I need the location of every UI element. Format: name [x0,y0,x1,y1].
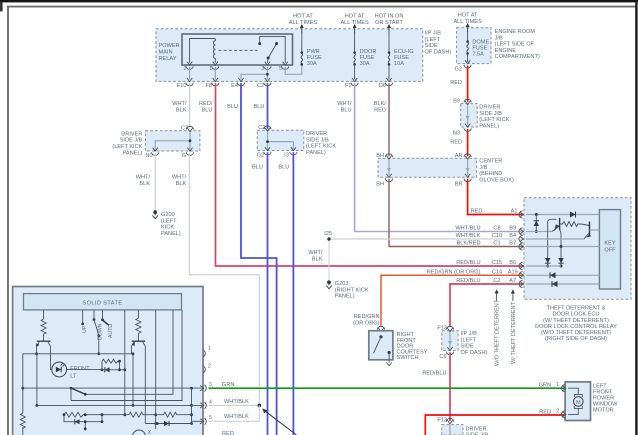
motor pin 1 [562,385,566,392]
svg-text:RELAY: RELAY [159,56,177,62]
svg-text:BR: BR [455,182,463,188]
svg-text:(LEFT: (LEFT [425,37,441,43]
svg-text:BLU: BLU [341,107,352,113]
feed wire h [155,310,157,429]
pin 2 [204,366,206,373]
svg-text:G203: G203 [335,281,349,287]
w/ theft deterrent arrow [512,292,514,302]
I/P JB F13 label [461,331,488,356]
svg-text:(LEFT: (LEFT [161,218,177,224]
svg-text:D6: D6 [379,83,386,89]
svg-text:PANEL): PANEL) [123,150,143,156]
wire RED to motor [425,415,565,435]
courtesy switch blade [379,335,382,338]
connector G pin [186,148,193,156]
ECU row B6 internal wire [526,265,561,267]
svg-text:M: M [576,400,581,406]
svg-text:HOT AT: HOT AT [458,13,478,19]
row D pin4 wire [37,404,203,406]
svg-text:WHT/BLU: WHT/BLU [455,226,480,232]
svg-text:(LEFT SIDE OF: (LEFT SIDE OF [495,42,535,48]
svg-text:PANEL): PANEL) [479,123,499,129]
PWR fuse [301,51,304,66]
P2 diode under resistor [64,415,102,422]
ECU connector B9 [519,228,523,235]
svg-text:DRIVER: DRIVER [121,131,142,137]
svg-text:ENGINE: ENGINE [495,48,517,54]
connector E10 [186,78,193,86]
svg-text:WHT/BLK: WHT/BLK [224,414,249,420]
pin5 inner wire [192,420,203,422]
transistor Q1 [559,218,561,231]
svg-text:RED/BLU: RED/BLU [422,371,446,377]
resistor row [64,412,87,417]
wire WHT/BLK from E10 [189,83,191,129]
svg-text:I/P J/B: I/P J/B [425,31,442,37]
ECU caption [535,305,617,342]
resistor R-left [20,413,25,429]
svg-text:F8: F8 [205,83,212,89]
internal wire split [268,132,294,151]
pin5 external wht/blk wire [209,405,260,421]
svg-text:SIDE: SIDE [425,43,438,49]
svg-text:BLK/: BLK/ [374,101,387,107]
diode left on A19 [550,272,556,278]
left rail down [22,354,24,435]
hot at all times label 2 [340,14,369,27]
ECU row B4 internal wire [526,238,584,240]
svg-text:(OR ORG): (OR ORG) [353,320,380,326]
svg-text:BLU: BLU [202,107,213,113]
connector F8 [212,78,219,86]
svg-text:GLOVE BOX): GLOVE BOX) [479,177,514,183]
relay coil [213,39,215,63]
wire RED/BLU down to driver JB [449,352,451,421]
svg-text:RED/BLU: RED/BLU [456,260,480,266]
relay dash-dot link [219,49,258,51]
connector G2 [464,60,471,68]
diode left on A7 [552,281,558,287]
diode row [145,423,191,425]
svg-text:(LEFT KICK: (LEFT KICK [112,144,142,150]
svg-text:FRONT: FRONT [70,366,90,372]
relay pin 2 [186,62,193,70]
svg-text:2: 2 [556,408,559,414]
gray frame left line [7,6,9,435]
I/P J/B label [425,31,452,56]
svg-text:N0: N0 [145,153,152,159]
svg-text:BLU: BLU [252,164,263,170]
ECU connector A1 [519,211,523,218]
svg-text:N3: N3 [453,131,460,137]
svg-text:1: 1 [209,66,212,72]
transistor Q-g [132,340,146,342]
ECU-IG fuse branch [388,29,390,52]
svg-text:30A: 30A [307,61,317,67]
ENGINE ROOM J/B box [457,28,491,64]
svg-text:C2: C2 [258,125,265,131]
Q-a emitter leg [36,346,38,354]
svg-text:BLK/RED: BLK/RED [457,241,481,247]
svg-text:(W/O THEFT DETERRENT): (W/O THEFT DETERRENT) [541,330,611,336]
wire BLU from G2 pin down [267,152,269,435]
bottom lamp [133,430,146,435]
svg-text:5: 5 [209,415,212,421]
svg-text:RED: RED [374,107,386,113]
svg-text:X: X [148,430,152,435]
svg-text:3: 3 [261,66,264,72]
hot in on or start label [375,14,404,27]
svg-text:W/O THEFT DETERRENT: W/O THEFT DETERRENT [495,299,501,366]
svg-text:THEFT DETERRENT &: THEFT DETERRENT & [547,305,606,311]
driver side JB label (left) [112,131,142,156]
ECU row A1 internal wire [526,214,599,216]
svg-text:C2: C2 [493,278,500,284]
feed wire a with resistor [43,310,45,341]
CENTER J/B box [378,158,477,177]
hot at all times label 3 [453,13,482,26]
svg-text:HOT IN ON: HOT IN ON [375,14,404,20]
connector D6 [385,78,392,86]
svg-text:DOWN: DOWN [98,323,104,340]
power main relay label [159,43,180,62]
gray frame top line [7,6,636,8]
svg-text:7.5A: 7.5A [472,52,484,58]
RED/GRN label at courtesy switch [353,314,380,326]
svg-text:BLU: BLU [254,104,265,110]
svg-text:ENGINE ROOM: ENGINE ROOM [495,29,536,35]
wire BLU from C2 [267,83,269,129]
svg-text:(LEFT: (LEFT [461,337,477,343]
svg-text:BLK: BLK [312,256,323,262]
svg-text:KEY: KEY [604,241,615,247]
row A pin3 wire [23,387,203,389]
svg-text:I3: I3 [284,153,289,159]
center JB label [479,159,514,184]
stub pin3 split to E4 and C2 [241,67,267,80]
svg-text:I25: I25 [324,231,332,237]
svg-text:J/B: J/B [495,35,503,41]
pin4 external wht/blk wire [209,404,260,406]
resistor R-g [136,318,141,334]
ECU connector B6 [519,262,523,269]
DRIVER SIDE J/B box (blue wires) [257,130,304,150]
svg-text:AR: AR [455,153,463,159]
svg-text:(BEHIND: (BEHIND [479,171,502,177]
wire WHT/BLK G pin long run to switch assembly [189,153,259,406]
relay blade to pin 3 [266,58,269,63]
svg-text:ALL TIMES: ALL TIMES [453,19,482,25]
courtesy switch lower contact [388,351,391,354]
wire GRN master switch to motor [209,387,566,389]
base resistor to Q2 [560,222,590,227]
courtesy switch label [397,332,428,361]
svg-text:G: G [182,153,186,159]
svg-text:C8: C8 [493,226,500,232]
svg-text:OF DASH): OF DASH) [461,350,488,356]
w/o theft deterrent arrow [496,292,498,302]
ECU connector B4 [519,235,523,242]
svg-text:LT: LT [70,374,77,380]
ECU row A7 internal wire [526,283,599,285]
svg-text:A19: A19 [508,269,518,275]
driver side JB label (blue) [306,131,336,156]
motor commutator brackets [574,395,582,409]
svg-text:BH: BH [376,182,384,188]
connector E4 [237,78,244,86]
relay switch blade [268,44,276,58]
internal wire split [155,132,190,151]
svg-text:WHT/: WHT/ [308,250,323,256]
motor internal wires [568,388,578,414]
motor label [593,384,618,414]
left front power window motor box [565,382,590,421]
relay fixed contact dot [258,42,261,45]
solid state box [24,294,182,310]
svg-text:A7: A7 [509,278,516,284]
relay fixed contact feed from pin 5 [260,36,286,62]
svg-text:1: 1 [556,382,559,388]
svg-text:MAIN: MAIN [159,50,173,56]
svg-text:BH: BH [376,153,384,159]
connector F13 driver JB [446,418,453,423]
relay pin 3 [264,62,271,70]
svg-text:F13: F13 [437,418,447,424]
svg-text:WHT/: WHT/ [136,175,151,181]
feed wire i to row B [85,310,173,394]
collector run down to B6 diode [548,219,557,258]
annotation arrow to junction [264,410,297,435]
svg-text:C10: C10 [492,233,502,239]
wire BLU from I3 pin down [292,152,294,435]
down switch [93,310,95,319]
wire RED to ECU A1 [468,179,524,215]
DRIVER SIDE J/B bottom box [442,425,463,435]
svg-text:A1: A1 [511,209,518,215]
hot at all times label 1 [289,14,318,27]
wire WHT/BLU from F1 to ECU C8 [355,83,524,231]
svg-text:WHT/: WHT/ [172,175,187,181]
connector I3 pin [290,147,297,155]
center JB internal wire (blk/red path) [388,160,390,176]
node I25 wht/blk net [329,238,524,240]
wire RED/BLU from F8 to ECU B6 [216,83,525,266]
svg-text:PANEL): PANEL) [335,294,355,300]
svg-text:I/P J/B: I/P J/B [461,331,478,337]
P1 resistor/diode pair [102,359,120,370]
svg-text:RED/GRN (OR ORG): RED/GRN (OR ORG) [427,269,481,275]
motor circle [574,397,584,407]
svg-text:DRIVER: DRIVER [479,105,500,111]
svg-text:C7: C7 [181,125,188,131]
svg-text:B9: B9 [453,99,460,105]
svg-text:OF DASH): OF DASH) [425,49,452,55]
DRIVER SIDE J/B box (left, wht/blk) [145,131,200,151]
center JB internal wire (red path) [467,160,469,176]
B7 vertical diode down [560,247,562,259]
svg-text:2: 2 [184,66,187,72]
PWR fuse wire to hot [301,29,303,52]
DRIVER SIDE J/B box (red feed) [461,104,478,127]
front lt lamp [52,362,67,377]
relay pin 1 [212,62,219,70]
svg-text:30A: 30A [360,61,370,67]
power main relay box [182,34,293,65]
wire WHT/BLK N0 to G200 [154,153,156,211]
relay coil feed wire [190,39,216,63]
svg-text:COMPARTMENT): COMPARTMENT) [495,54,540,60]
svg-text:BLK: BLK [139,181,150,187]
svg-text:RED: RED [450,80,462,86]
svg-text:2: 2 [208,364,211,370]
transistor Q-a [37,340,51,342]
long feed wire f [124,310,126,415]
Q1 emitter to B7 junction [560,229,561,247]
pin 5 [200,418,206,425]
svg-text:ALL TIMES: ALL TIMES [340,20,369,26]
svg-text:BLK: BLK [176,107,187,113]
stub pin2 to E10 [189,67,191,80]
svg-text:SWITCH: SWITCH [397,355,419,361]
svg-text:F1: F1 [345,83,352,89]
svg-text:SIDE J/B: SIDE J/B [479,111,502,117]
svg-text:W/ THEFT DETERRENT: W/ THEFT DETERRENT [511,301,517,364]
svg-text:KICK: KICK [161,225,174,231]
connector BH bottom [385,174,392,182]
svg-text:RED/BLU: RED/BLU [456,278,480,284]
ground G203 [326,280,332,288]
svg-text:C6: C6 [439,354,446,360]
wire RED/BLU lower net to ECU C2 [450,284,524,327]
connector BH top [385,154,392,159]
svg-text:C15: C15 [492,260,502,266]
feed wire g with resistor [137,310,139,341]
svg-text:B9: B9 [509,226,516,232]
svg-text:UP: UP [82,325,88,333]
svg-text:SOLID STATE: SOLID STATE [83,301,123,307]
svg-text:10A: 10A [394,61,404,67]
bus wire y353.8 [23,353,133,355]
throw contact wire [70,388,72,400]
svg-text:ALL TIMES: ALL TIMES [289,20,318,26]
courtesy switch connector [377,326,384,331]
relay pin 5 [282,62,289,70]
svg-text:E4: E4 [231,83,238,89]
svg-text:G200: G200 [161,212,175,218]
front lt to P1 network [67,369,102,371]
pin 4 [200,402,206,409]
svg-text:CENTER: CENTER [479,159,502,165]
ECU row B9 internal wire [526,231,552,233]
svg-text:DOOR LOCK CONTROL RELAY: DOOR LOCK CONTROL RELAY [535,324,617,330]
pin 3 [200,385,206,392]
svg-text:WHT/: WHT/ [172,101,187,107]
svg-text:OFF: OFF [604,248,616,254]
svg-text:C2: C2 [257,83,264,89]
svg-text:GRN: GRN [539,383,551,389]
Q-g left leg down [131,346,133,405]
svg-text:RED/: RED/ [199,101,213,107]
svg-text:3: 3 [209,382,212,388]
junction dot A1 [535,213,538,216]
resistor R-a [41,319,46,334]
svg-text:RED: RED [450,140,462,146]
wire RED dome to driver JB [467,66,469,102]
svg-text:BLK: BLK [176,181,187,187]
ECU row B7 internal wire [526,246,599,248]
wire RED to center JB [467,129,469,156]
svg-text:SIDE: SIDE [461,344,474,350]
svg-text:WHT/BLK: WHT/BLK [456,233,481,239]
svg-text:RED/GRN: RED/GRN [354,314,380,320]
connector C2 [264,78,271,86]
svg-text:MOTOR: MOTOR [593,407,614,413]
black right edge bar [635,2,637,435]
DOOR fuse branch [354,29,356,52]
svg-text:RED: RED [222,431,234,435]
stub pin1 to F8 [214,67,216,80]
svg-text:HOT AT: HOT AT [345,14,365,20]
svg-text:DRIVER: DRIVER [306,131,327,137]
motor pin 2 [562,411,566,418]
connector AR [464,154,471,159]
auto switch [102,310,104,319]
svg-text:PANEL): PANEL) [161,231,181,237]
svg-text:RED: RED [471,209,483,215]
svg-text:G2: G2 [455,67,462,73]
svg-text:OR START: OR START [375,20,403,26]
KEY OFF box [599,210,620,289]
ECU row A19 internal wire [526,274,599,276]
svg-text:E10: E10 [177,83,187,89]
svg-text:GRN: GRN [222,382,234,388]
svg-text:B4: B4 [509,233,516,239]
driver side JB label [479,105,509,130]
svg-text:SIDE J/B: SIDE J/B [120,138,143,144]
svg-text:B7: B7 [509,241,516,247]
feed wire j to row C [71,310,182,401]
svg-text:4: 4 [209,399,212,405]
pin 1 [204,350,206,357]
svg-text:WHT/: WHT/ [337,101,352,107]
right front door courtesy switch box [369,331,393,360]
wire BLK/RED from D6 to ECU C1 [389,83,524,246]
svg-text:AUTO: AUTO [108,324,114,338]
svg-text:1: 1 [208,346,211,352]
connector F1 [351,78,358,86]
front lt label [70,366,90,380]
svg-text:G2: G2 [257,153,264,159]
engine room label [495,29,540,60]
svg-text:BLU: BLU [227,104,238,110]
svg-text:J/B: J/B [479,165,487,171]
inner right rail [191,388,193,423]
connector BR [464,174,471,182]
svg-text:RED: RED [539,409,551,415]
black top edge bar [0,0,638,2]
svg-text:SIDE J/B: SIDE J/B [306,137,329,143]
THEFT DETERRENT / DOOR LOCK ECU box [524,198,631,300]
diode on A1 row [570,212,576,218]
svg-text:(RIGHT KICK: (RIGHT KICK [335,287,369,293]
svg-text:WHT/BLK: WHT/BLK [224,399,249,405]
svg-text:B6: B6 [509,260,516,266]
internal wire [449,332,451,348]
ECU connector A19 [519,272,523,279]
internal wire with arrow [467,106,469,126]
svg-text:BLU: BLU [278,164,289,170]
svg-text:5: 5 [279,66,282,72]
